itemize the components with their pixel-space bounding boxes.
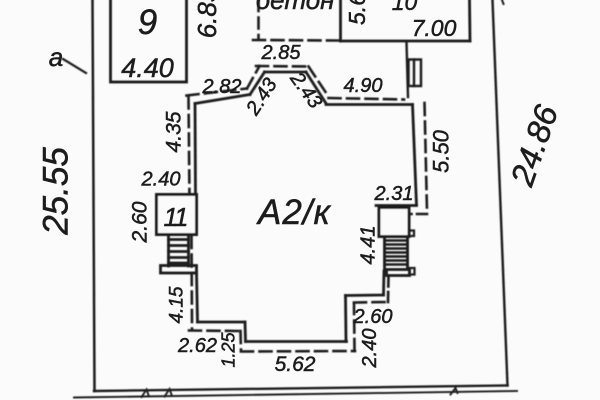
- building wall bottom-right step horizontal: [346, 294, 384, 297]
- svg-text:10: 10: [392, 0, 418, 15]
- svg-text:4.41: 4.41: [358, 226, 380, 265]
- road line below boundary: [74, 391, 517, 398]
- label a leader line: [63, 59, 86, 73]
- chimney box divider: [413, 60, 415, 87]
- building wall right lower vertical: [382, 271, 385, 295]
- right porch knob upper: [409, 231, 414, 237]
- chimney box on fence: [409, 60, 422, 87]
- dashed outline bottom-right step vertical: [353, 303, 356, 351]
- dashed outline top-right horizontal: [329, 98, 405, 100]
- right porch box: [379, 208, 409, 237]
- svg-text:4.35: 4.35: [163, 111, 186, 152]
- building wall left vertical lower: [197, 272, 198, 322]
- tick mark 1 on road line: [142, 390, 149, 398]
- dashed outline bay left diagonal: [247, 66, 260, 89]
- svg-text:2.60: 2.60: [129, 201, 152, 243]
- parcel 10 box left edge: [339, 0, 342, 41]
- concrete pad (beton) box dashed bottom edge: [253, 39, 339, 42]
- svg-text:4.15: 4.15: [167, 286, 188, 323]
- svg-text:25.55: 25.55: [37, 147, 76, 236]
- dashed outline bottom-right step horizontal: [354, 301, 388, 304]
- building porch top wall: [376, 204, 417, 207]
- left stairs right rail: [187, 236, 190, 266]
- dashed outline bottom horizontal: [241, 350, 355, 353]
- left stairs left rail: [167, 236, 170, 266]
- building wall top-left horizontal: [195, 95, 250, 104]
- building wall bottom-left step vertical: [244, 322, 247, 342]
- svg-text:5.6: 5.6: [344, 0, 370, 25]
- svg-text:7.00: 7.00: [412, 15, 457, 41]
- right stairs left rail: [383, 238, 386, 269]
- fence line from box 10 to building: [407, 42, 409, 97]
- dashed outline bottom-left step vertical: [239, 331, 242, 351]
- porch 11 box: [157, 195, 197, 235]
- svg-text:2.85: 2.85: [261, 42, 302, 64]
- svg-text:бетон: бетон: [256, 0, 335, 15]
- dashed outline left vertical upper: [189, 97, 190, 200]
- left stairs treads: [169, 240, 189, 264]
- building wall left vertical upper: [194, 104, 197, 197]
- building wall right vertical: [413, 105, 417, 206]
- site boundary left line: [93, 0, 95, 391]
- site boundary bottom line: [94, 386, 508, 392]
- right stairs knob lower: [410, 268, 415, 275]
- site boundary right line: [493, 0, 508, 386]
- svg-text:2.62: 2.62: [177, 335, 217, 357]
- dashed outline right lower vertical: [387, 276, 390, 302]
- svg-text:9: 9: [138, 3, 157, 42]
- right stairs right rail: [406, 238, 409, 269]
- dashed outline right vertical: [425, 103, 428, 212]
- building wall bay right diagonal: [306, 72, 326, 104]
- dashed outline left vertical lower: [190, 236, 193, 329]
- tick mark 2 on road line: [165, 389, 172, 397]
- concrete pad (beton) box dashed left edge: [257, 0, 260, 39]
- building wall bottom horizontal: [246, 340, 347, 343]
- svg-text:4.40: 4.40: [121, 53, 174, 83]
- right stairs bottom bar: [387, 270, 410, 276]
- left stairs bottom bar: [161, 266, 197, 274]
- svg-text:4.90: 4.90: [344, 75, 383, 97]
- dashed outline right porch jog: [409, 213, 427, 216]
- svg-text:А2/к: А2/к: [256, 193, 332, 232]
- dashed outline top-left horizontal: [187, 89, 248, 96]
- svg-text:2.40: 2.40: [141, 169, 181, 191]
- svg-text:5.50: 5.50: [429, 129, 454, 173]
- dashed outline bottom-left step horizontal: [189, 329, 241, 332]
- building wall bottom-left step horizontal: [198, 321, 246, 324]
- building wall bay left diagonal: [250, 72, 265, 95]
- parcel 10 box right edge: [468, 0, 471, 41]
- dashed outline bay top: [256, 65, 309, 68]
- stray tick mark top right: [502, 0, 504, 4]
- svg-text:1.25: 1.25: [219, 332, 239, 368]
- svg-text:2.82: 2.82: [202, 76, 242, 98]
- svg-text:2.60: 2.60: [353, 306, 393, 328]
- svg-text:2.40: 2.40: [359, 329, 381, 369]
- right stairs treads: [385, 241, 408, 265]
- svg-text:a: a: [49, 42, 63, 72]
- dashed outline bay right diagonal: [309, 67, 329, 97]
- parcel 10 box bottom edge: [341, 40, 471, 43]
- building wall top-right horizontal: [326, 103, 413, 106]
- building wall bay top: [265, 71, 307, 74]
- svg-text:11: 11: [164, 202, 188, 232]
- building wall bottom-right step vertical: [344, 296, 347, 342]
- svg-text:6.83: 6.83: [192, 0, 222, 38]
- tick mark 3 on road line: [451, 388, 458, 395]
- svg-text:2.31: 2.31: [374, 183, 414, 205]
- parcel 9 box: [111, 0, 187, 82]
- svg-text:5.62: 5.62: [275, 353, 316, 376]
